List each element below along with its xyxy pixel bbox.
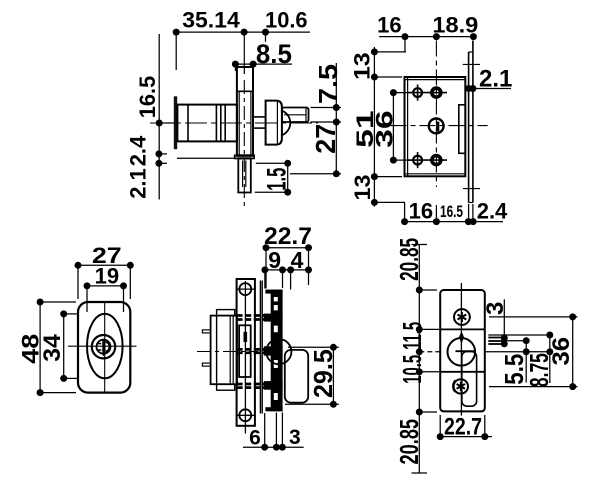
svg-text:11.5: 11.5	[397, 322, 427, 350]
vertical center line	[104, 303, 106, 392]
barrel ring 1	[187, 105, 189, 142]
panel line 2	[261, 281, 263, 414]
ext lines down	[265, 251, 267, 289]
dot 7.5/27 shared	[333, 119, 340, 126]
spacer bottom line	[253, 127, 266, 129]
center line horizontal	[197, 351, 258, 353]
dot 13/51	[371, 74, 378, 81]
key cylinder right arc	[106, 342, 110, 352]
dot 13 bottom	[371, 199, 378, 206]
ext shaft bottom	[311, 121, 342, 123]
dim 36 vertical	[572, 317, 574, 387]
dim 8.75 vertical	[549, 335, 551, 383]
strike strip	[237, 279, 255, 426]
dim 5.5 vertical	[525, 341, 527, 383]
svg-text:20.85: 20.85	[394, 238, 424, 281]
flange bottom cap	[469, 202, 473, 204]
barrel body	[177, 105, 237, 142]
3 dots	[501, 335, 508, 342]
ext line washer level	[177, 157, 235, 159]
body white slits	[274, 297, 278, 301]
dot 19 left	[84, 282, 91, 289]
barrel ring 4	[224, 105, 226, 142]
plate inner top line	[405, 79, 466, 81]
strip center line	[244, 281, 246, 434]
dot 27 left	[75, 262, 82, 269]
dot 7.5 top	[333, 104, 340, 111]
dots 29.5	[330, 344, 337, 351]
ext 48 bottom	[40, 392, 76, 394]
key slot bar in middle hole	[436, 122, 439, 132]
svg-text:1.5: 1.5	[261, 168, 291, 191]
top tick	[412, 244, 428, 246]
bar vertical center line	[243, 33, 245, 74]
ext 6/3	[264, 413, 266, 445]
svg-text:7.5: 7.5	[313, 64, 343, 104]
barrel ring 2	[215, 105, 217, 142]
svg-text:4: 4	[291, 247, 304, 273]
svg-text:3: 3	[289, 426, 301, 449]
top screw circle	[454, 309, 470, 325]
spacer top line	[253, 116, 266, 118]
serrations	[488, 337, 502, 339]
keyhole outer circle	[92, 335, 115, 358]
dim line 16.5 vertical	[158, 34, 160, 200]
svg-text:13: 13	[350, 52, 375, 80]
left dots	[416, 287, 423, 294]
svg-text:2.4: 2.4	[477, 199, 508, 224]
ext 29.5 top	[288, 346, 339, 348]
tab on right edge	[459, 105, 466, 154]
dim line 22.7	[266, 247, 309, 249]
ext 16.5 to flange	[159, 122, 177, 124]
svg-text:16: 16	[377, 12, 401, 37]
dimensions view 5	[412, 245, 578, 474]
svg-text:36: 36	[548, 337, 575, 366]
right ext top screw	[489, 316, 578, 318]
screw bottom	[239, 409, 251, 421]
dim 1.5 vertical	[287, 163, 289, 192]
body column	[271, 290, 283, 412]
screw top	[239, 283, 251, 295]
center ext line right	[486, 351, 550, 353]
dot 35.14/10.6 shared	[241, 29, 248, 36]
ears bottom	[217, 384, 235, 390]
svg-text:10.5: 10.5	[397, 355, 427, 384]
vertical center line	[460, 283, 462, 416]
dot 27 right	[127, 262, 134, 269]
dot 35.14 left	[173, 29, 180, 36]
dot 13 top	[371, 48, 378, 55]
side flange line 1	[468, 52, 470, 203]
washer nut under bar	[235, 155, 255, 158]
right ext bottom screw	[489, 386, 578, 388]
svg-text:2.4: 2.4	[126, 135, 151, 166]
shaft slot line	[284, 114, 306, 116]
hidden barrel lines through strip (bar 1)	[237, 316, 267, 388]
svg-text:6: 6	[249, 427, 261, 450]
dot 1.5 top	[284, 160, 291, 167]
dot 18.9 right	[470, 33, 477, 40]
small screw hole top	[413, 88, 422, 97]
face plate rounded rect	[78, 302, 130, 393]
ext y=202.4	[374, 201, 405, 203]
bottom 22.7 dots	[437, 433, 444, 440]
ext y=176.9	[374, 176, 402, 178]
ext bottom flange lines	[468, 204, 470, 219]
flange (face plate edge-on)	[174, 96, 177, 149]
svg-text:19: 19	[95, 264, 119, 289]
dot 8.5 left	[232, 61, 239, 68]
svg-text:2.1: 2.1	[479, 65, 512, 92]
divider line 1	[440, 328, 485, 330]
ext y=77	[374, 76, 402, 78]
dim 29.5 vertical	[332, 347, 334, 404]
bottom dim line 16/16.5/2.4	[405, 221, 503, 223]
dim 3 vertical	[503, 299, 505, 345]
extension line right of 10.6	[265, 35, 267, 42]
plate outline	[405, 77, 466, 176]
dim line 9/4	[265, 269, 309, 271]
svg-text:16: 16	[409, 199, 433, 224]
dimensions view 4	[243, 248, 339, 448]
ext 1.5 bottom	[255, 191, 288, 193]
svg-text:10.6: 10.6	[265, 7, 308, 32]
keyway slot	[102, 340, 105, 356]
dim line 27	[78, 264, 130, 266]
svg-text:34: 34	[39, 334, 66, 362]
bottom dim 22.7	[440, 436, 492, 438]
dot 36 top	[390, 89, 397, 96]
divider line 2	[440, 371, 485, 373]
dim line 8.5	[235, 63, 292, 65]
ext 27 left	[77, 268, 79, 299]
svg-text:27: 27	[310, 124, 341, 154]
dim line 6/3	[243, 446, 304, 448]
mounting bar shoulder line	[237, 90, 253, 92]
ext 16 left	[404, 40, 406, 52]
plate inner left line	[407, 77, 409, 176]
ext 48 top	[40, 301, 76, 303]
key tab lower	[202, 363, 210, 366]
extension line left of 35.14	[175, 35, 177, 70]
dim line 7.5/27 vertical	[335, 63, 337, 174]
svg-text:9: 9	[268, 247, 281, 273]
dots 2.1	[465, 85, 472, 92]
ext 27 right	[129, 268, 131, 299]
dots 6/3	[261, 444, 268, 451]
dots 22.7	[263, 244, 270, 251]
dot 36 bottom	[390, 157, 397, 164]
dot 2.4	[155, 150, 162, 157]
svg-text:20.85: 20.85	[394, 419, 424, 465]
svg-text:22.7: 22.7	[444, 414, 482, 441]
ext 1.5 top	[256, 162, 288, 164]
serration bottom line to 5.5	[505, 340, 527, 342]
barrel ring 3	[220, 105, 222, 142]
dot 16.5	[156, 120, 163, 127]
bottom tick	[412, 472, 428, 474]
svg-text:35.14: 35.14	[182, 8, 240, 33]
horizontal axis center line	[150, 122, 318, 124]
chord line	[456, 350, 476, 352]
svg-text:18.9: 18.9	[432, 12, 478, 37]
svg-text:8.5: 8.5	[256, 39, 292, 69]
flange cross tick top	[463, 63, 480, 65]
dot 8.5 right	[250, 61, 257, 68]
dimensions view 2	[374, 37, 511, 222]
small screw hole bottom	[413, 156, 422, 165]
key cylinder small circle	[97, 340, 111, 354]
flange cross tick bottom	[463, 188, 480, 190]
dot 16/18.9	[433, 33, 440, 40]
top cap	[265, 290, 282, 294]
hub arc circle	[266, 339, 291, 364]
dot 34 bottom	[60, 375, 67, 382]
cross small hole bottom	[408, 159, 447, 161]
horizontal center line	[391, 125, 488, 127]
middle hole	[429, 119, 444, 134]
36 dots	[569, 313, 576, 320]
flange top cap	[469, 51, 473, 53]
ext stubs left	[419, 289, 437, 291]
ext y=51.9	[374, 51, 406, 53]
ext 36 top	[393, 92, 412, 94]
inner tab rounded rect	[462, 352, 477, 407]
mounting bar (vertical plate)	[237, 67, 253, 155]
plate inner bottom line	[405, 173, 466, 175]
ext 34 bottom	[64, 377, 78, 379]
line serration top to 8.75	[488, 334, 550, 336]
dim 2.1 leader	[470, 88, 511, 90]
key tab upper	[202, 330, 210, 333]
bottom screw partial arc	[453, 380, 456, 392]
ext 29.5 bottom	[285, 403, 339, 405]
dim line 34 vertical	[63, 314, 65, 379]
vertical center line	[435, 41, 437, 188]
dot 48 bottom	[37, 389, 44, 396]
big hole bottom (thick ring)	[432, 156, 441, 165]
stub dots 2.4/2.1	[159, 153, 167, 155]
dot 27 bottom	[333, 170, 340, 177]
ext 19 right	[123, 289, 125, 313]
stem slot right	[245, 161, 247, 188]
oval boss	[87, 314, 123, 378]
stem slot left	[242, 161, 244, 188]
dot 19 right	[120, 282, 127, 289]
cross small hole top	[408, 92, 447, 94]
dim line 36 vertical	[392, 90, 394, 162]
dot 2.1	[155, 160, 162, 167]
5.5 dots	[523, 337, 530, 344]
dot 48 top	[37, 299, 44, 306]
dots 9/4	[261, 266, 268, 273]
ext shaft top	[311, 107, 342, 109]
side flange line 2	[472, 41, 474, 203]
body plate rounded rect	[440, 290, 485, 411]
ext bottom left	[404, 203, 406, 219]
hub bulge arc	[281, 110, 290, 135]
ext stubs 8.5	[234, 67, 236, 72]
svg-text:29.5: 29.5	[308, 349, 338, 398]
shaft end ring	[305, 108, 307, 123]
dot 51/13	[371, 173, 378, 180]
ext 34 top	[64, 313, 78, 315]
dimensions view 1	[159, 32, 341, 199]
dim line 35.14 / 10.6	[176, 31, 310, 33]
dim line 16/18.9	[379, 36, 473, 38]
svg-text:22.7: 22.7	[264, 223, 312, 250]
panel line 1	[259, 281, 261, 414]
bottom screw circle	[454, 379, 468, 393]
svg-text:3: 3	[482, 302, 509, 315]
thumb knob	[285, 350, 308, 403]
cam inner seam line	[276, 102, 278, 144]
dim line 13/51/13 vertical	[373, 47, 375, 207]
hidden barrel lines (bar 3)	[237, 383, 267, 386]
dot 16 left	[402, 33, 409, 40]
hidden tailpiece lines (bar 2)	[237, 348, 267, 351]
left dim line	[418, 245, 420, 474]
bottom dots	[401, 218, 408, 225]
ext 19 left	[86, 289, 88, 313]
middle circle	[448, 338, 476, 366]
ears top	[217, 310, 235, 316]
8.75 dots	[546, 332, 553, 339]
flange inner line	[216, 316, 218, 385]
bottom screw star	[457, 382, 465, 392]
svg-text:36: 36	[372, 110, 399, 148]
tailpiece shaft	[282, 108, 309, 123]
cam body	[266, 101, 282, 145]
threaded stem	[238, 159, 251, 193]
mounting bar inner right line	[250, 91, 252, 155]
svg-text:2.1: 2.1	[126, 168, 151, 199]
horizontal center line	[68, 345, 137, 347]
strip slot	[239, 325, 251, 377]
dot 34 top	[60, 310, 67, 317]
ext bottom center	[435, 205, 437, 219]
inner vertical pair	[229, 316, 231, 385]
svg-text:16.5: 16.5	[135, 76, 160, 118]
big hole top (thick ring)	[432, 88, 441, 97]
dot 10.6 right	[262, 29, 269, 36]
barrel behind (left)	[211, 316, 237, 385]
pin arrow	[459, 331, 464, 344]
ext 27 bottom	[290, 173, 341, 175]
top screw star	[458, 312, 467, 322]
svg-text:16.5: 16.5	[440, 202, 463, 221]
dot 1.5 bottom	[284, 189, 291, 196]
dimensions view 3	[40, 265, 130, 392]
bottom cap	[265, 407, 282, 411]
ext 36 bottom	[393, 159, 412, 161]
dim line 48 vertical	[39, 302, 41, 393]
dim line 19	[87, 285, 124, 287]
mounting bar inner left line	[238, 91, 240, 155]
svg-text:13: 13	[350, 175, 375, 201]
lock body black profile	[264, 290, 283, 412]
